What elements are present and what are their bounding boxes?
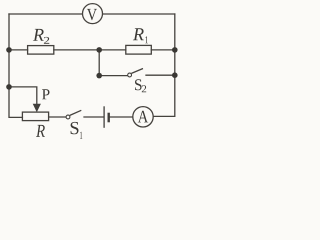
node slider branch	[6, 84, 12, 90]
wire: rheostat to S1	[49, 116, 66, 118]
battery long plate	[103, 106, 105, 128]
P	[42, 89, 50, 99]
battery short plate	[107, 113, 109, 123]
wire: right vertical	[153, 14, 175, 116]
S2 sub	[142, 85, 146, 92]
R1 R	[133, 28, 144, 40]
S1 S	[71, 122, 79, 134]
resistor R2	[28, 46, 54, 55]
switch S2 blade	[131, 69, 143, 74]
ammeter circle	[133, 107, 153, 127]
switch S2 pivot	[128, 73, 132, 77]
V letter	[87, 9, 97, 20]
wire: row2 left	[9, 49, 28, 51]
voltmeter circle	[83, 4, 103, 24]
wire: top right segment	[103, 13, 175, 15]
slider arrow	[33, 104, 40, 112]
wire: row2 middle	[54, 49, 126, 51]
rheostat R box	[22, 112, 48, 121]
S1 sub	[80, 132, 82, 139]
R2 R	[33, 29, 44, 41]
node row2 right	[172, 47, 178, 53]
R1 sub	[145, 36, 148, 43]
wire: middle vertical	[98, 50, 100, 76]
R2 sub	[44, 37, 49, 44]
A letter	[138, 111, 148, 123]
S2 S	[135, 79, 142, 90]
wire: S1 to battery	[84, 116, 103, 118]
switch S1 pivot	[66, 115, 70, 119]
wire: left vertical	[9, 14, 22, 117]
switch S1 blade	[70, 110, 82, 115]
R bottom	[36, 125, 45, 137]
wire: battery to ammeter	[110, 116, 133, 118]
wire: row2 right	[151, 49, 175, 51]
node row3 middle	[96, 73, 102, 79]
node row2 left	[6, 47, 12, 53]
wire: row3 left to S2	[99, 75, 127, 77]
node row2 middle	[96, 47, 102, 53]
node row3 right	[172, 72, 178, 78]
resistor R1	[126, 45, 152, 54]
wire: top left segment	[9, 13, 83, 15]
wire: row3 S2 to right	[146, 74, 175, 76]
wire: slider branch	[9, 87, 37, 104]
